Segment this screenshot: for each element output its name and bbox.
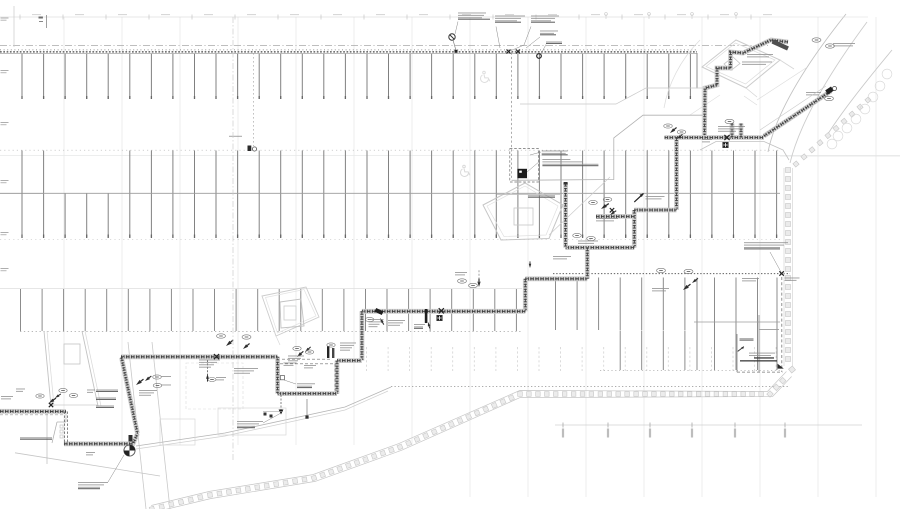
node oval-829 xyxy=(825,96,834,100)
node text-281-device xyxy=(237,420,263,423)
wire duct-spur-565 xyxy=(563,183,568,248)
wire ductbank-stub-741 xyxy=(739,124,744,138)
wire ductbank-horiz-210 xyxy=(634,208,676,213)
node text-top-cluster-3 xyxy=(531,15,559,18)
node X-727 xyxy=(724,135,729,140)
node text-transformer xyxy=(542,150,568,153)
node ovals-577 xyxy=(573,233,582,237)
wire band-C-bottom-dotted xyxy=(600,370,780,372)
wire ductbank-horiz-356 xyxy=(121,354,278,359)
node text-top-cluster-4 xyxy=(540,30,558,33)
node building-B3 xyxy=(262,287,319,345)
node circle-device-452 xyxy=(449,34,455,40)
node text-86-452 xyxy=(86,451,95,454)
wire curb-C3 xyxy=(15,453,160,476)
node arrows-junction-600 xyxy=(600,202,610,210)
node device-307-stub xyxy=(306,399,308,417)
node parking-band-B xyxy=(22,151,777,239)
wire ductbank-building-steps xyxy=(705,40,789,138)
wire property-line xyxy=(0,45,768,47)
wire band-D-dotted xyxy=(391,386,788,388)
node arrows-134 xyxy=(135,378,145,387)
node text-139 xyxy=(139,389,157,392)
node cluster-50 xyxy=(48,397,57,405)
node text-manhole xyxy=(78,481,108,484)
node dark-bar-panel xyxy=(773,42,789,49)
node text-east-future xyxy=(744,241,788,244)
wire ductbank-vert-587 xyxy=(585,248,590,279)
wire ductbank-diagonal-NE xyxy=(764,91,831,136)
wire band-B-bottom-ticks xyxy=(0,239,780,241)
wire ductbank-stub-732 xyxy=(730,124,735,138)
node devices-265 xyxy=(264,413,267,416)
node text-199 xyxy=(199,359,220,362)
wire matchline-x14 xyxy=(13,6,15,47)
node arrows-222 xyxy=(225,339,235,348)
node X-216 xyxy=(214,354,219,359)
wire curb-C2 xyxy=(136,387,391,446)
node handicap-symbol xyxy=(481,71,490,82)
node oval-729 xyxy=(725,119,734,123)
node top-dimension-line xyxy=(0,13,772,20)
wire band-A-right-edge xyxy=(696,53,698,89)
node building-B2-middle xyxy=(483,183,563,240)
node device-208 xyxy=(207,360,209,375)
node parking-band-A xyxy=(22,54,690,99)
wire rock-strip-edges xyxy=(792,168,794,366)
node text-160 xyxy=(161,375,171,378)
node ring-device-539 xyxy=(537,54,542,59)
node oval-593 xyxy=(589,200,598,204)
node text-288 xyxy=(288,355,304,358)
wire matchline-x233 xyxy=(232,17,234,460)
wire ductbank-horiz-443 xyxy=(64,434,138,444)
node text-755 xyxy=(742,277,759,280)
wire ductbank-vert-634 xyxy=(632,210,637,248)
wire curb-C1 xyxy=(512,115,704,180)
wire band-A-dotted xyxy=(0,51,697,53)
wire ductbank-horiz-278 xyxy=(525,276,587,281)
node text-top-cluster-2 xyxy=(495,15,525,18)
node ramp-trapezoid xyxy=(52,411,66,443)
node text-833 xyxy=(833,42,855,45)
wire band-C-ticks xyxy=(20,330,521,332)
node text-210 xyxy=(216,376,226,379)
node text-368 xyxy=(369,318,384,321)
wire curb-C1b xyxy=(520,88,704,104)
wire thin-parallel-diag xyxy=(760,86,826,130)
node oval-369 xyxy=(365,317,374,321)
wire ductbank-horiz-137 xyxy=(665,135,765,140)
node text-95 xyxy=(96,389,118,392)
wire xyxy=(0,288,522,290)
node text-747 xyxy=(747,53,773,56)
node text-340 xyxy=(340,342,356,345)
wire ductbank-slant-SW xyxy=(122,358,138,434)
node text-top-cluster-1 xyxy=(458,12,486,15)
node arrows-479 xyxy=(477,278,480,287)
node transformer-blob xyxy=(517,169,527,178)
node X-612 xyxy=(610,208,614,212)
wire dashed-y414 xyxy=(0,414,64,416)
wire leader-dashed-x511 xyxy=(511,53,513,181)
node text-596 xyxy=(596,217,618,220)
wire ductbank-vert-676 xyxy=(674,138,679,211)
node junction-blob-132 xyxy=(129,435,133,442)
node text-trench-inner xyxy=(284,362,297,365)
node text-553 xyxy=(553,255,571,258)
wire ductbank-vert-337 xyxy=(335,361,340,394)
wire ductbank-horiz-247 xyxy=(566,245,635,250)
node sidewalk-strip-bottom xyxy=(149,377,786,509)
node text-718 xyxy=(718,125,745,128)
node X-device-518 xyxy=(516,50,520,54)
wire drive-edge-diagonal xyxy=(549,177,610,235)
wire sidewalk-edge-top xyxy=(151,372,786,506)
wire road-curve-1 xyxy=(768,14,846,152)
node ovals-817 xyxy=(812,38,821,42)
node devices-376 xyxy=(375,308,384,315)
node planter-dashed-186 xyxy=(186,363,243,409)
node end-blob-831 xyxy=(825,86,834,94)
node devices-668 xyxy=(669,126,678,134)
node parking-band-C xyxy=(21,278,778,371)
node transformer-pad-dashed xyxy=(510,149,539,182)
node X-device-508 xyxy=(507,50,511,54)
node text-643 xyxy=(646,195,665,198)
wire dim-line-ext xyxy=(770,16,868,18)
node device-281 xyxy=(280,395,282,411)
node handicap-symbol-2 xyxy=(461,165,470,176)
node parking-band-D-faint xyxy=(367,347,777,371)
node arrow-diag-643 xyxy=(634,194,643,203)
wire road-curve-3 xyxy=(664,40,700,108)
wire road-curve-2 xyxy=(790,22,867,163)
wire duct-spur-216 xyxy=(596,214,634,219)
node trench-dashed-outline xyxy=(280,359,335,390)
node arrows-528 xyxy=(529,261,532,268)
node building-B1-top-right xyxy=(702,40,794,97)
wire xyxy=(780,155,900,157)
node marker-topleft xyxy=(39,17,43,19)
node text-806 xyxy=(806,91,821,94)
wire ductbank-vert-362 xyxy=(359,311,364,360)
node trees-along-road xyxy=(827,69,892,149)
node dice-439 xyxy=(437,315,442,320)
node arrows-684 xyxy=(682,283,692,292)
node text-16 xyxy=(16,388,25,391)
wire sidewalk-edge-bottom xyxy=(153,377,792,509)
wire ductbank-vert-278 xyxy=(275,357,280,394)
node rock-strip-east xyxy=(786,97,872,373)
node X-51 xyxy=(49,403,53,407)
node planter-rect-1 xyxy=(160,419,195,445)
wire left-lot-line xyxy=(46,410,48,464)
node manhole-circle xyxy=(124,445,135,456)
node text-building-B2 xyxy=(528,194,555,197)
node left-edge-marks xyxy=(1,18,9,272)
wire ductbank-vert-66 xyxy=(64,412,66,444)
wire band-A-top xyxy=(0,52,697,54)
wire band-B-top-ticks xyxy=(0,149,780,151)
node arrows-296 xyxy=(296,350,305,358)
node building-B5-future-dashed xyxy=(737,277,784,372)
node building-B4-bottom-left xyxy=(44,331,170,509)
wire ductbank-horiz-311 xyxy=(362,309,525,314)
node text-463 xyxy=(455,271,467,274)
wire ductbank-horiz-360 xyxy=(337,358,362,363)
node text-top-cluster-5 xyxy=(546,41,562,44)
node X-781 xyxy=(779,271,783,275)
node devices-330 xyxy=(327,346,329,358)
node text-87 xyxy=(87,389,95,392)
wire xyxy=(0,155,900,157)
wire ductbank-vert-525 xyxy=(523,279,528,312)
node planter-rect-2 xyxy=(218,408,286,435)
wire ductbank-horiz-411 xyxy=(0,409,66,414)
node dimension-string-bottom xyxy=(555,423,862,438)
node text-20-437 xyxy=(20,436,52,439)
wire band-C-east-mid xyxy=(694,321,780,323)
wire ductbank-horiz-393 xyxy=(278,391,337,396)
wire curb-C5 xyxy=(700,142,789,161)
node device-565-tick xyxy=(564,182,568,185)
node dice-725 xyxy=(723,142,728,147)
wire terrace-lines-B1 xyxy=(757,68,806,100)
node text-578 xyxy=(578,240,598,243)
wire band-C-top-dotted xyxy=(553,273,790,275)
wire band-B-midline xyxy=(0,192,43,194)
node device-246 xyxy=(248,146,252,152)
node devices-426 xyxy=(425,309,428,323)
node X-441 xyxy=(439,308,444,313)
